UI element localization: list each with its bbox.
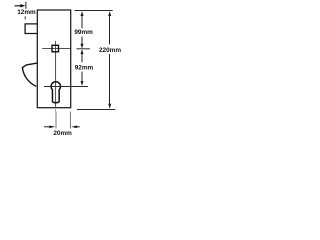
dimension 99mm (74, 11, 93, 49)
dimension 12mm label (17, 9, 36, 19)
dimension 220mm (99, 11, 121, 109)
dimension 92mm (75, 49, 94, 86)
svg-text:220mm: 220mm (99, 47, 121, 54)
euro cylinder cutout (51, 82, 60, 103)
svg-text:92mm: 92mm (75, 65, 94, 72)
svg-text:20mm: 20mm (53, 130, 72, 137)
spindle follower centre cross (42, 41, 70, 112)
hook bolt (22, 63, 37, 86)
lock case plate (37, 10, 70, 108)
spindle follower square (52, 45, 59, 52)
dimension 12mm arrow (15, 2, 26, 9)
bottom extension line (77, 109, 115, 111)
cylinder centre tick line (44, 86, 88, 88)
latch bolt (25, 24, 37, 34)
svg-text:99mm: 99mm (74, 29, 93, 36)
svg-text:12mm: 12mm (17, 9, 36, 16)
dimension 20mm (44, 112, 80, 137)
top extension line (75, 10, 113, 12)
